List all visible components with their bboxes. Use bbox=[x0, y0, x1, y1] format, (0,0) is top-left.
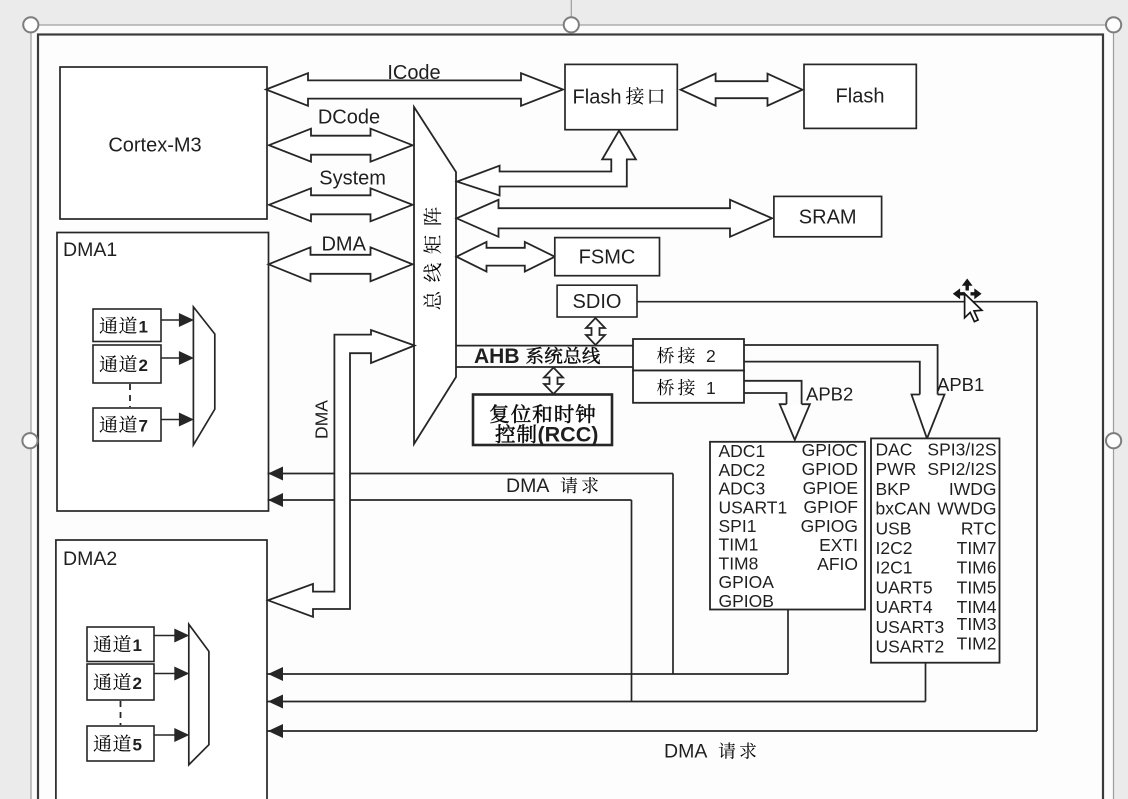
RCC label line1 复位和时钟 bbox=[490, 404, 508, 423]
svg-text:2: 2 bbox=[133, 674, 142, 693]
svg-text:USART1: USART1 bbox=[719, 497, 788, 517]
svg-text:TIM3: TIM3 bbox=[957, 614, 997, 634]
DMA2 ch2 arrow bbox=[154, 673, 175, 675]
SDIO wire right bbox=[637, 301, 1037, 303]
wire C: SDIO line down to DMA2 bbox=[1036, 302, 1038, 731]
svg-text:GPIOG: GPIOG bbox=[801, 516, 858, 536]
SDIO box bbox=[557, 285, 637, 317]
svg-text:ADC2: ADC2 bbox=[719, 460, 766, 480]
svg-text:TIM5: TIM5 bbox=[957, 577, 997, 597]
wire B: APB1 box to DMA2/DMA1 bbox=[925, 663, 927, 702]
svg-text:Flash: Flash bbox=[573, 87, 622, 109]
DMA arrow bbox=[269, 247, 413, 281]
DMA2 channel 1 box bbox=[87, 627, 154, 662]
Cortex-M3 box bbox=[60, 67, 267, 219]
svg-text:TIM8: TIM8 bbox=[719, 553, 759, 573]
rotation handle stem bbox=[570, 0, 572, 17]
svg-text:1: 1 bbox=[133, 636, 142, 655]
mouse move-cursor icon bbox=[953, 279, 982, 300]
svg-text:TIM7: TIM7 bbox=[957, 538, 997, 558]
svg-text:PWR: PWR bbox=[876, 459, 917, 479]
svg-text:DMA: DMA bbox=[664, 741, 707, 763]
svg-text:5: 5 bbox=[133, 736, 142, 755]
svg-text:TIM6: TIM6 bbox=[957, 558, 997, 578]
bridge2 wire b bbox=[744, 362, 920, 395]
RCC label line2 控制(RCC) bbox=[496, 424, 515, 443]
svg-text:SDIO: SDIO bbox=[573, 291, 622, 313]
APB2 arrowhead bbox=[780, 404, 810, 440]
svg-text:RTC: RTC bbox=[961, 518, 997, 538]
svg-text:APB1: APB1 bbox=[937, 374, 984, 395]
DMA1 funnel bbox=[193, 307, 214, 445]
svg-text:System: System bbox=[319, 168, 386, 190]
DMA2 channel 2 box bbox=[87, 664, 154, 700]
svg-text:bxCAN: bxCAN bbox=[876, 499, 931, 519]
svg-text:(RCC): (RCC) bbox=[538, 423, 599, 447]
DMA2 channel 5 box bbox=[87, 726, 154, 761]
Flash to Flash-if arrow bbox=[681, 74, 803, 106]
svg-text:DMA1: DMA1 bbox=[63, 239, 117, 261]
DMA2 ch1 arrow bbox=[154, 635, 175, 637]
bridge1 wire a bbox=[744, 381, 802, 404]
svg-text:ADC1: ADC1 bbox=[719, 441, 766, 461]
Flash box bbox=[804, 64, 916, 128]
DMA1 box bbox=[57, 233, 269, 512]
svg-text:DMA2: DMA2 bbox=[63, 548, 117, 570]
System arrow bbox=[269, 188, 413, 221]
svg-text:DMA: DMA bbox=[321, 234, 366, 256]
wire A: APB2 box to DMA2/DMA1 bbox=[787, 610, 789, 675]
DMA1 channel 1 box bbox=[93, 309, 161, 342]
dashed line DMA2 bbox=[120, 701, 122, 725]
DMA1 ch1 arrow bbox=[161, 319, 180, 321]
svg-text:GPIOF: GPIOF bbox=[804, 497, 858, 517]
svg-text:2: 2 bbox=[706, 346, 716, 366]
DMA1 ch2 arrow bbox=[161, 357, 180, 359]
svg-text:I2C2: I2C2 bbox=[876, 538, 913, 558]
svg-text:USART3: USART3 bbox=[876, 617, 945, 637]
svg-text:DMA: DMA bbox=[312, 400, 332, 439]
svg-text:DAC: DAC bbox=[876, 440, 913, 460]
svg-text:GPIOE: GPIOE bbox=[803, 478, 858, 498]
svg-text:SPI2/I2S: SPI2/I2S bbox=[927, 459, 996, 479]
DMA1 channel 7 box bbox=[93, 408, 161, 441]
SRAM box bbox=[774, 196, 882, 236]
svg-text:AFIO: AFIO bbox=[817, 554, 858, 574]
selection handle 1 bbox=[23, 17, 38, 32]
DMA2 ch5 arrow bbox=[154, 734, 175, 736]
FSMC box bbox=[555, 238, 660, 276]
bent arrow matrix to flash-if bbox=[457, 131, 636, 196]
svg-text:Flash: Flash bbox=[836, 86, 885, 108]
svg-text:SRAM: SRAM bbox=[799, 207, 857, 229]
DMA1 channel 2 box bbox=[93, 345, 161, 383]
svg-text:WWDG: WWDG bbox=[937, 499, 996, 519]
DCode arrow bbox=[269, 129, 413, 162]
svg-text:UART4: UART4 bbox=[876, 597, 933, 617]
selection handle 5 bbox=[1106, 433, 1121, 448]
svg-text:APB2: APB2 bbox=[806, 384, 853, 405]
RCC box bbox=[473, 395, 612, 446]
bridge2 wire a bbox=[744, 345, 938, 395]
svg-text:EXTI: EXTI bbox=[819, 535, 858, 555]
selection handle 3 bbox=[1106, 17, 1121, 32]
DMA1 ch7 arrow bbox=[161, 419, 180, 421]
svg-text:GPIOA: GPIOA bbox=[719, 572, 775, 592]
APB2 peripheral box bbox=[710, 442, 865, 610]
APB1 arrowhead bbox=[912, 395, 945, 439]
svg-text:I2C1: I2C1 bbox=[876, 558, 913, 578]
svg-text:GPIOD: GPIOD bbox=[802, 459, 858, 479]
bridge2 box 桥接2 bbox=[633, 339, 744, 371]
SRAM arrow bbox=[457, 200, 773, 237]
bridge1 wire b bbox=[744, 393, 787, 404]
bridge1 box 桥接1 bbox=[633, 371, 744, 403]
svg-text:GPIOC: GPIOC bbox=[802, 440, 858, 460]
selection handle 2 bbox=[564, 17, 579, 32]
svg-text:AHB: AHB bbox=[474, 345, 520, 368]
svg-text:USART2: USART2 bbox=[876, 637, 945, 657]
svg-text:Cortex-M3: Cortex-M3 bbox=[108, 135, 201, 157]
svg-text:DCode: DCode bbox=[318, 107, 380, 129]
svg-text:TIM2: TIM2 bbox=[957, 634, 997, 654]
APB1 peripheral box bbox=[871, 438, 1000, 662]
bus matrix trapezoid bbox=[414, 107, 456, 444]
big bent DMA arrow bbox=[268, 330, 415, 617]
svg-text:1: 1 bbox=[139, 318, 148, 337]
svg-text:1: 1 bbox=[706, 378, 716, 398]
svg-text:BKP: BKP bbox=[876, 479, 911, 499]
DMA2 box bbox=[56, 540, 267, 799]
SDIO vertical arrow bbox=[586, 318, 605, 345]
DMA2 funnel bbox=[189, 624, 209, 765]
svg-text:FSMC: FSMC bbox=[579, 247, 636, 269]
svg-text:USB: USB bbox=[876, 518, 912, 538]
svg-text:UART5: UART5 bbox=[876, 577, 933, 597]
svg-text:SPI3/I2S: SPI3/I2S bbox=[927, 440, 996, 460]
svg-text:SPI1: SPI1 bbox=[719, 516, 757, 536]
RCC vertical arrow bbox=[544, 368, 563, 395]
svg-text:2: 2 bbox=[139, 356, 148, 375]
svg-text:GPIOB: GPIOB bbox=[719, 591, 774, 611]
ICode arrow bbox=[266, 73, 563, 106]
selection handle 4 bbox=[22, 433, 37, 448]
svg-text:DMA: DMA bbox=[506, 475, 549, 497]
dashed line DMA1 bbox=[129, 384, 131, 407]
FSMC arrow bbox=[457, 242, 555, 272]
Flash interface box bbox=[565, 64, 677, 129]
svg-text:IWDG: IWDG bbox=[949, 479, 997, 499]
svg-text:ICode: ICode bbox=[387, 62, 440, 84]
AHB bus lines bbox=[456, 345, 633, 347]
svg-text:TIM1: TIM1 bbox=[719, 535, 759, 555]
svg-text:ADC3: ADC3 bbox=[719, 479, 766, 499]
svg-text:7: 7 bbox=[139, 417, 148, 436]
bus matrix label 总线矩阵 bbox=[423, 292, 440, 309]
